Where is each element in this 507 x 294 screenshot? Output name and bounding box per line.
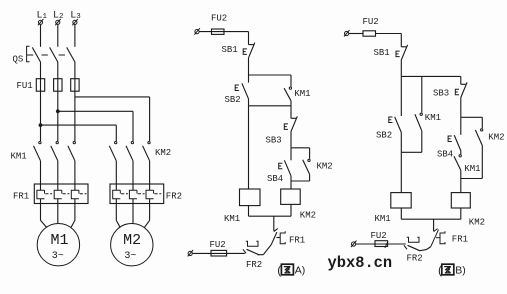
svg-text:KM2: KM2	[469, 218, 485, 228]
svg-text:FU2: FU2	[210, 240, 226, 250]
svg-text:SB2: SB2	[376, 131, 392, 141]
svg-text:KM1: KM1	[375, 214, 391, 224]
svg-text:KM1: KM1	[11, 152, 27, 162]
svg-text:FR1: FR1	[452, 235, 468, 245]
svg-text:SB4: SB4	[267, 174, 283, 184]
svg-text:SB1: SB1	[374, 48, 390, 58]
svg-text:FR2: FR2	[407, 254, 423, 264]
svg-text:KM1: KM1	[425, 113, 441, 123]
svg-text:FU1: FU1	[17, 81, 33, 91]
svg-text:FU2: FU2	[371, 231, 387, 241]
svg-text:3~: 3~	[124, 251, 136, 262]
svg-text:FR2: FR2	[246, 260, 262, 270]
svg-text:FR1: FR1	[289, 235, 305, 245]
svg-text:3~: 3~	[52, 251, 64, 262]
svg-text:KM2: KM2	[488, 132, 504, 142]
svg-text:SB3: SB3	[433, 89, 449, 99]
svg-text:M1: M1	[51, 232, 69, 249]
svg-text:KM1: KM1	[464, 164, 480, 174]
svg-text:B): B)	[455, 265, 466, 277]
svg-text:KM1: KM1	[224, 214, 240, 224]
svg-text:A): A)	[295, 265, 306, 277]
svg-text:FU2: FU2	[363, 17, 379, 27]
svg-text:KM2: KM2	[155, 148, 171, 158]
svg-text:FR1: FR1	[13, 192, 29, 202]
svg-text:KM1: KM1	[294, 89, 310, 99]
svg-text:KM2: KM2	[317, 161, 333, 171]
svg-text:FU2: FU2	[211, 14, 227, 24]
svg-text:SB1: SB1	[222, 45, 238, 55]
svg-text:ybx8.cn: ybx8.cn	[328, 254, 393, 272]
svg-text:SB3: SB3	[266, 135, 282, 145]
svg-text:QS: QS	[13, 54, 24, 64]
svg-text:KM2: KM2	[300, 211, 316, 221]
svg-text:SB4: SB4	[437, 149, 453, 159]
svg-text:SB2: SB2	[225, 95, 241, 105]
svg-text:M2: M2	[123, 232, 141, 249]
svg-text:FR2: FR2	[166, 192, 182, 202]
